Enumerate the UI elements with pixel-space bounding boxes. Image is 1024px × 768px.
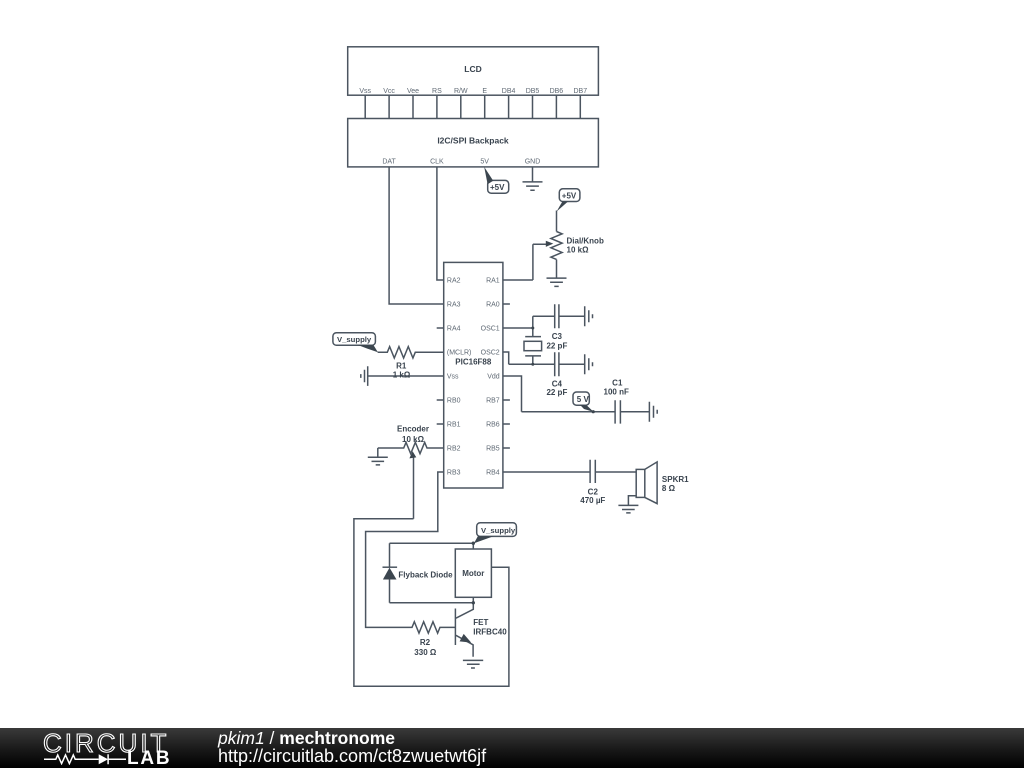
svg-text:RA2: RA2 <box>447 278 461 285</box>
svg-text:Motor: Motor <box>462 569 484 578</box>
svg-text:DB4: DB4 <box>502 88 516 95</box>
svg-text:R/W: R/W <box>454 88 468 95</box>
svg-text:RB7: RB7 <box>486 398 500 405</box>
svg-text:V_supply: V_supply <box>481 526 516 535</box>
svg-text:E: E <box>482 88 487 95</box>
svg-text:OSC1: OSC1 <box>481 326 500 333</box>
svg-text:470 µF: 470 µF <box>580 496 605 505</box>
svg-text:RS: RS <box>432 88 442 95</box>
svg-text:8 Ω: 8 Ω <box>662 484 676 493</box>
svg-text:V_supply: V_supply <box>337 335 372 344</box>
svg-text:PIC16F88: PIC16F88 <box>455 358 492 367</box>
svg-text:10 kΩ: 10 kΩ <box>567 246 590 255</box>
svg-text:RA3: RA3 <box>447 302 461 309</box>
svg-text:1 kΩ: 1 kΩ <box>393 371 411 380</box>
svg-text:RB4: RB4 <box>486 470 500 477</box>
svg-text:RB1: RB1 <box>447 422 461 429</box>
svg-text:R1: R1 <box>396 362 407 371</box>
svg-text:RB6: RB6 <box>486 422 500 429</box>
svg-text:330 Ω: 330 Ω <box>414 648 437 657</box>
svg-text:RB2: RB2 <box>447 446 461 453</box>
svg-text:Vss: Vss <box>447 374 459 381</box>
svg-text:R2: R2 <box>420 638 431 647</box>
svg-text:Vss: Vss <box>359 88 371 95</box>
svg-text:RB0: RB0 <box>447 398 461 405</box>
svg-text:(MCLR): (MCLR) <box>447 350 472 357</box>
svg-text:DB7: DB7 <box>573 88 587 95</box>
svg-text:DB6: DB6 <box>550 88 564 95</box>
svg-text:+5V: +5V <box>490 183 505 192</box>
svg-text:OSC2: OSC2 <box>481 350 500 357</box>
svg-text:RA1: RA1 <box>486 278 500 285</box>
svg-text:Encoder: Encoder <box>397 425 429 434</box>
svg-text:RB3: RB3 <box>447 470 461 477</box>
svg-text:C1: C1 <box>612 379 623 388</box>
svg-text:CLK: CLK <box>430 159 444 166</box>
svg-text:I2C/SPI Backpack: I2C/SPI Backpack <box>437 136 509 146</box>
svg-text:Flyback Diode: Flyback Diode <box>398 570 453 579</box>
svg-text:RA4: RA4 <box>447 326 461 333</box>
svg-text:22 pF: 22 pF <box>546 342 567 351</box>
svg-text:+5V: +5V <box>562 192 577 201</box>
svg-text:SPKR1: SPKR1 <box>662 475 689 484</box>
svg-text:Vee: Vee <box>407 88 419 95</box>
svg-text:C3: C3 <box>552 332 563 341</box>
svg-text:LCD: LCD <box>464 64 481 74</box>
svg-text:RA0: RA0 <box>486 302 500 309</box>
svg-text:Vcc: Vcc <box>383 88 395 95</box>
svg-text:5 V: 5 V <box>577 395 590 404</box>
svg-text:10 kΩ: 10 kΩ <box>402 435 425 444</box>
svg-text:Vdd: Vdd <box>487 374 500 381</box>
svg-text:DB5: DB5 <box>526 88 540 95</box>
svg-text:100 nF: 100 nF <box>604 387 629 396</box>
svg-text:RB5: RB5 <box>486 446 500 453</box>
svg-text:Dial/Knob: Dial/Knob <box>567 237 604 246</box>
svg-text:FET: FET <box>473 618 488 627</box>
svg-text:5V: 5V <box>480 159 489 166</box>
svg-text:22 pF: 22 pF <box>546 388 567 397</box>
svg-text:GND: GND <box>525 159 541 166</box>
svg-text:IRFBC40: IRFBC40 <box>473 628 507 637</box>
svg-text:DAT: DAT <box>382 159 396 166</box>
